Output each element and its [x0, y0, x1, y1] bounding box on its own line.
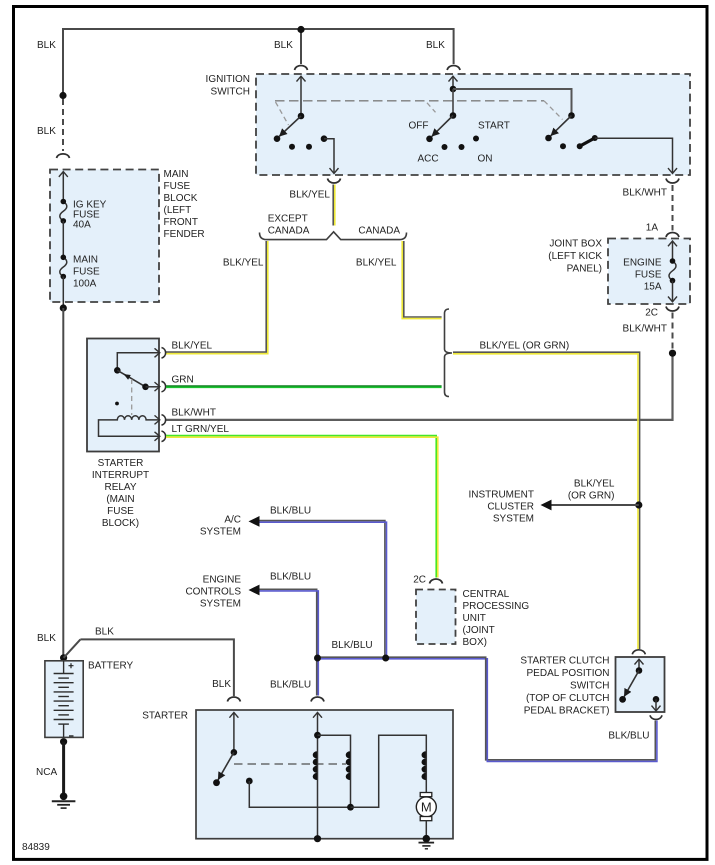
wire BLK drop to ignition switch terminal 1 — [300, 31, 302, 64]
battery plates — [54, 661, 74, 738]
motor coil bumps — [422, 751, 426, 780]
wire wafer 2 to wafer 3 feed — [453, 89, 572, 116]
starter solenoid main vertical with entry arrow — [317, 712, 319, 838]
relay pivot dot — [114, 367, 121, 374]
starter switch arm contact dot — [213, 779, 220, 786]
wafer 3 contact dot — [560, 143, 566, 149]
label JOINT BOX (LEFT KICK PANEL) — [548, 239, 602, 275]
svg-text:INSTRUMENT: INSTRUMENT — [468, 490, 534, 501]
wire BLK long left vertical to battery — [62, 308, 64, 658]
wafer 3 output wire with exit arrow — [595, 138, 673, 173]
svg-text:STARTER: STARTER — [98, 458, 144, 469]
label INSTRUMENT CLUSTER SYSTEM — [468, 490, 534, 525]
wafer 1 output contact dot — [321, 135, 328, 142]
svg-text:BLK/YEL: BLK/YEL — [289, 190, 330, 201]
wire starter contact to solenoid — [249, 781, 350, 807]
node junction dot clutch feed — [635, 501, 642, 508]
wafer 3 arm contact dot — [545, 135, 552, 142]
wire battery to ground — [62, 742, 65, 797]
svg-text:CANADA: CANADA — [268, 226, 310, 237]
wire solenoid top link — [318, 735, 351, 807]
svg-text:SYSTEM: SYSTEM — [493, 514, 534, 525]
svg-text:FUSE: FUSE — [635, 270, 662, 281]
svg-text:BLK/BLU: BLK/BLU — [270, 572, 311, 583]
svg-text:BLK/BLU: BLK/BLU — [608, 731, 649, 742]
wire between fuses — [62, 221, 64, 257]
node junction dot battery positive — [60, 654, 67, 661]
svg-text:BLK/BLU: BLK/BLU — [270, 680, 311, 691]
svg-text:BLK: BLK — [212, 679, 231, 690]
node junction dot solenoid top — [314, 732, 321, 739]
svg-text:FENDER: FENDER — [164, 229, 205, 240]
relay terminal cups — [162, 348, 166, 442]
svg-text:CONTROLS: CONTROLS — [185, 587, 241, 598]
svg-text:15A: 15A — [644, 282, 662, 293]
label ENGINE CONTROLS SYSTEM — [185, 575, 241, 610]
svg-text:SWITCH: SWITCH — [211, 87, 250, 98]
svg-text:OFF: OFF — [409, 121, 429, 132]
connector cup starter terminal 1 — [227, 697, 240, 702]
wire to instrument cluster — [551, 504, 639, 506]
svg-text:INTERRUPT: INTERRUPT — [92, 470, 149, 481]
wire LT GRN/YEL relay to CPU — [166, 436, 438, 578]
relay terminal arrows — [150, 353, 160, 437]
node junction dot BLK/BLU left — [314, 655, 321, 662]
label BLK/YEL (OR GRN) cluster — [568, 479, 615, 502]
label MAIN FUSE BLOCK (LEFT FRONT FENDER — [164, 169, 205, 240]
node junction dot coil 2 bottom — [347, 804, 354, 811]
svg-text:100A: 100A — [73, 279, 97, 290]
svg-text:BLK/YEL: BLK/YEL — [223, 258, 264, 269]
relay arm — [117, 370, 145, 387]
wafer 1 pivot dot — [298, 113, 305, 120]
merge bracket — [445, 309, 453, 397]
node junction dot left vertical — [59, 92, 66, 99]
arrow instrument cluster — [541, 500, 552, 511]
wafer 1 arm contact dot — [274, 135, 281, 142]
clutch switch exit arrow — [655, 699, 657, 711]
svg-text:ENGINE: ENGINE — [623, 258, 662, 269]
battery plus symbol — [69, 663, 74, 668]
svg-text:GRN: GRN — [172, 375, 194, 386]
relay arm contact dot — [142, 384, 149, 391]
svg-text:MAIN: MAIN — [164, 169, 189, 180]
label STARTER INTERRUPT RELAY (MAIN FUSE BLOCK) — [92, 458, 149, 529]
wire BLK/WHT dashed to joint box — [672, 185, 674, 231]
svg-text:STARTER: STARTER — [142, 711, 188, 722]
svg-text:ENGINE: ENGINE — [203, 575, 242, 586]
relay arm arrow — [124, 374, 131, 380]
svg-text:A/C: A/C — [224, 515, 241, 526]
ignition switch box — [256, 74, 690, 175]
clutch switch arm contact dot — [619, 696, 626, 703]
svg-text:PEDAL BRACKET): PEDAL BRACKET) — [524, 706, 610, 717]
fuse ENGINE FUSE 15A — [623, 258, 676, 293]
svg-text:(MAIN: (MAIN — [106, 494, 134, 505]
svg-text:BLK: BLK — [426, 40, 445, 51]
linkage diagonal wafer 2 — [427, 103, 436, 113]
svg-text:(OR GRN): (OR GRN) — [568, 491, 615, 502]
starter switch pivot dot — [231, 749, 238, 756]
svg-text:BATTERY: BATTERY — [88, 661, 134, 672]
svg-text:FUSE: FUSE — [107, 506, 134, 517]
svg-text:BLK/BLU: BLK/BLU — [270, 506, 311, 517]
svg-text:2C: 2C — [645, 308, 658, 319]
svg-text:ON: ON — [478, 154, 493, 165]
connector cup ignition terminal 2 — [447, 66, 460, 71]
wafer 2 arm contact dot — [426, 136, 433, 143]
wire to motor branch — [351, 735, 427, 807]
svg-text:BLK: BLK — [37, 40, 56, 51]
battery box — [45, 661, 83, 738]
svg-text:SWITCH: SWITCH — [570, 681, 609, 692]
label CENTRAL PROCESSING UNIT (JOINT BOX) — [463, 589, 530, 648]
wire BLK/BLU to engine controls — [259, 589, 318, 695]
connector cup ignition terminal 1 — [295, 66, 308, 71]
starter switch arm — [218, 752, 234, 780]
svg-text:FUSE: FUSE — [73, 267, 100, 278]
wire BLK battery diagonal corner — [64, 639, 81, 657]
svg-text:STARTER CLUTCH: STARTER CLUTCH — [520, 656, 609, 667]
svg-text:SYSTEM: SYSTEM — [200, 527, 241, 538]
relay internal wire contact to terminal 2 — [146, 386, 160, 388]
starter switch entry arrow — [233, 712, 235, 752]
wafer 1 contact dots — [289, 144, 295, 150]
fuse IG KEY FUSE 40A — [60, 199, 107, 231]
node junction dot solenoid bottom — [314, 835, 321, 842]
node junction dot BLK/WHT riser — [669, 350, 676, 357]
relay internal wire terminal 1 to pivot — [117, 353, 159, 371]
clutch switch output contact dot — [653, 696, 660, 703]
label EXCEPT CANADA — [268, 214, 310, 237]
svg-text:(LEFT: (LEFT — [164, 205, 192, 216]
svg-text:(JOINT: (JOINT — [463, 625, 495, 636]
svg-text:EXCEPT: EXCEPT — [268, 214, 308, 225]
svg-text:CANADA: CANADA — [358, 226, 400, 237]
node junction dot below fuse block — [60, 304, 67, 311]
wafer 3 pivot dot — [568, 112, 575, 119]
relay linkage dashed — [131, 379, 133, 415]
wire entry arrow into fuse block — [62, 172, 64, 202]
wafer 2 entry arrow — [452, 76, 454, 89]
wire BLK left vertical solid — [62, 28, 64, 96]
wafer 1 entry arrow — [300, 76, 302, 116]
motor M — [416, 793, 436, 821]
svg-text:BOX): BOX) — [463, 637, 487, 648]
ground battery — [52, 793, 76, 809]
wire BLK left vertical dashed — [62, 99, 64, 151]
svg-text:RELAY: RELAY — [104, 482, 136, 493]
ground starter motor — [419, 835, 435, 849]
arrow A/C system — [249, 516, 260, 527]
svg-text:BLK/YEL: BLK/YEL — [356, 258, 397, 269]
starter clutch pedal position switch box — [616, 657, 665, 712]
svg-text:BLK: BLK — [274, 40, 293, 51]
svg-text:UNIT: UNIT — [463, 613, 486, 624]
connector cup into clutch switch — [632, 650, 645, 655]
svg-text:40A: 40A — [73, 220, 91, 231]
solenoid coil 1 bumps — [313, 751, 317, 780]
svg-text:SYSTEM: SYSTEM — [200, 599, 241, 610]
connector cup BLK/YEL exit — [328, 179, 341, 184]
svg-text:PANEL): PANEL) — [567, 264, 602, 275]
starter linkage dashed — [234, 763, 346, 765]
wafer 3 arm — [551, 116, 572, 136]
connector cup BLK/WHT exit — [666, 179, 679, 184]
linkage diagonal wafer 3 — [544, 101, 563, 120]
wire BLK drop to ignition switch terminal 2 — [453, 28, 455, 64]
svg-text:BLOCK): BLOCK) — [102, 518, 139, 529]
wafer 3 closed contact bar — [577, 135, 598, 149]
svg-text:FUSE: FUSE — [164, 181, 191, 192]
connector cup starter terminal 2 — [311, 697, 324, 702]
svg-text:BLK/YEL: BLK/YEL — [574, 479, 615, 490]
connector cup into CPU — [430, 579, 443, 584]
svg-text:JOINT BOX: JOINT BOX — [549, 239, 602, 250]
svg-text:MAIN: MAIN — [73, 255, 98, 266]
wire BLK/YEL except-canada branch — [166, 241, 268, 354]
connector cup into main fuse block — [57, 154, 70, 158]
starter interrupt relay box — [87, 339, 159, 452]
svg-text:1A: 1A — [646, 223, 659, 234]
node junction dot top bus — [297, 26, 304, 33]
svg-text:PROCESSING: PROCESSING — [463, 601, 530, 612]
wire GRN relay to merge bracket — [166, 386, 442, 387]
wire BLK/YEL from ignition — [333, 185, 335, 226]
svg-text:BLOCK: BLOCK — [164, 193, 198, 204]
svg-text:START: START — [478, 121, 510, 132]
label IGNITION SWITCH — [206, 74, 250, 98]
node junction dot battery negative — [60, 738, 67, 745]
svg-text:(TOP OF CLUTCH: (TOP OF CLUTCH — [526, 693, 610, 704]
wafer 2 arm — [432, 116, 453, 137]
svg-text:FRONT: FRONT — [164, 217, 198, 228]
solenoid coil 2 bumps — [346, 751, 350, 780]
svg-text:BLK/WHT: BLK/WHT — [623, 188, 667, 199]
svg-text:BLK/WHT: BLK/WHT — [623, 324, 667, 335]
relay small contact dot — [115, 402, 119, 406]
starter box — [196, 710, 453, 839]
wafer 2 contact dots ACC ON START — [442, 144, 448, 150]
svg-text:BLK: BLK — [95, 627, 114, 638]
wire motor to ground — [425, 821, 427, 839]
option split bracket — [260, 232, 407, 240]
label A/C SYSTEM — [200, 515, 241, 538]
relay coil — [99, 416, 160, 437]
central processing unit box — [416, 590, 456, 645]
svg-text:BLK/WHT: BLK/WHT — [172, 408, 216, 419]
wire BLK/BLU loop to clutch switch — [486, 658, 657, 761]
arrow engine controls system — [249, 585, 260, 596]
wafer 1 arm — [279, 116, 301, 136]
wire BLK top horizontal bus — [63, 28, 454, 30]
wire BLK/YEL (OR GRN) merged output — [453, 352, 640, 649]
wire BLK battery to starter — [80, 639, 234, 696]
battery minus symbol — [69, 735, 74, 737]
connector cup below clutch switch — [650, 715, 662, 719]
wire BLK/WHT dashed below joint box — [672, 313, 674, 350]
wafer 2 top junction dot — [450, 86, 457, 93]
svg-text:84839: 84839 — [22, 842, 50, 853]
linkage diagonal wafer 1 — [276, 102, 289, 125]
svg-text:PEDAL POSITION: PEDAL POSITION — [527, 668, 610, 679]
svg-text:CLUSTER: CLUSTER — [487, 502, 534, 513]
svg-text:M: M — [421, 800, 432, 815]
svg-text:BLK: BLK — [37, 633, 56, 644]
joint box — [608, 239, 690, 305]
wire BLK/YEL canada branch — [402, 241, 441, 319]
wire BLK/BLU main horizontal — [318, 657, 487, 659]
svg-text:2C: 2C — [413, 575, 426, 586]
starter switch output contact dot — [246, 778, 253, 785]
main fuse block box — [50, 170, 159, 303]
mechanical linkage dashed line — [275, 100, 544, 102]
svg-text:NCA: NCA — [36, 767, 57, 778]
wafer 2 pivot dot — [450, 112, 457, 119]
svg-text:(LEFT KICK: (LEFT KICK — [548, 251, 602, 262]
node junction dot BLK/BLU right — [382, 655, 389, 662]
clutch switch arm — [624, 671, 639, 697]
label STARTER CLUTCH PEDAL POSITION SWITCH — [520, 656, 609, 717]
svg-text:BLK/BLU: BLK/BLU — [332, 640, 373, 651]
wire BLK/WHT from relay to right riser — [166, 353, 673, 420]
svg-text:ACC: ACC — [418, 154, 439, 165]
clutch switch entry arrow — [638, 659, 640, 670]
svg-text:IGNITION: IGNITION — [206, 74, 250, 85]
connector cup below joint box — [666, 307, 679, 312]
svg-text:LT GRN/YEL: LT GRN/YEL — [172, 424, 230, 435]
fuse MAIN FUSE 100A — [60, 254, 100, 289]
connector cup into joint box — [666, 233, 679, 238]
wire BLK/BLU to A/C system — [259, 521, 387, 658]
svg-text:BLK/YEL (OR GRN): BLK/YEL (OR GRN) — [480, 341, 570, 352]
clutch switch pivot dot — [636, 667, 643, 674]
wire wafer 2 pivot feed — [452, 89, 454, 116]
svg-text:BLK/YEL: BLK/YEL — [172, 341, 213, 352]
wire entry arrow into joint box — [672, 241, 674, 261]
wire exit arrow from joint box — [672, 281, 674, 302]
svg-text:BLK: BLK — [37, 126, 56, 137]
wafer 1 output wire with exit arrow — [324, 139, 334, 174]
wire fuse block to bottom node — [62, 277, 64, 309]
svg-text:CENTRAL: CENTRAL — [463, 589, 510, 600]
